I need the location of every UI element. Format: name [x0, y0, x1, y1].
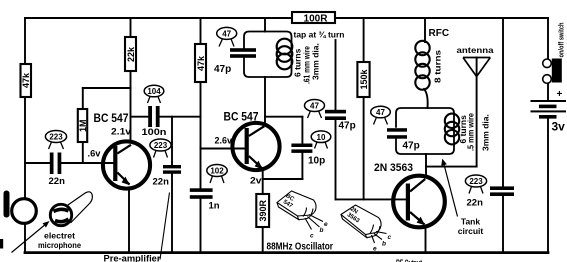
wire 22k column from rail — [130, 18, 132, 37]
svg-text:circuit: circuit — [458, 226, 484, 236]
svg-text:100R: 100R — [304, 14, 329, 25]
wire tank1 top leg from rail — [264, 18, 266, 32]
wire 22n cap to Q1 base — [62, 162, 113, 164]
wire 10p top leg — [301, 117, 303, 144]
wire Q2 emitter to 10p — [263, 178, 303, 180]
antenna — [463, 58, 490, 77]
wire 47p tap cap to Q3 base node — [335, 120, 337, 199]
svg-text:47p: 47p — [403, 141, 420, 152]
svg-text:electret: electret — [44, 232, 75, 241]
wire RFC top leg from rail — [424, 18, 426, 42]
wire Q2 collector node to 10p feedback — [265, 116, 302, 118]
wire 150k top leg from rail — [363, 18, 365, 62]
inductor L1 oscillator coil loop — [244, 32, 292, 78]
svg-text:tap at ¾ turn: tap at ¾ turn — [294, 30, 345, 40]
svg-text:Tank: Tank — [461, 217, 480, 227]
capacitor C1 22n plates — [50, 153, 54, 175]
wire Q1 emitter to ground — [128, 188, 130, 252]
svg-text:47p: 47p — [339, 121, 356, 132]
wire 22n output cap top leg from rail — [502, 18, 504, 186]
wire Q3 base — [336, 198, 406, 200]
leader arrow to electret microphone — [12, 221, 50, 253]
svg-text:.6v: .6v — [88, 149, 101, 159]
wire 47k2 bottom through junctions to 1n cap — [200, 82, 202, 188]
wire 150k bottom leg to base node — [363, 97, 365, 199]
wire 22k bottom to Q1 collector — [130, 71, 132, 142]
resistor R5 100R — [292, 12, 335, 23]
wire 1M feedback top — [83, 87, 131, 89]
microphone symbol — [4, 191, 37, 224]
inductor L1 turns — [277, 39, 293, 70]
svg-text:antenna: antenna — [457, 45, 494, 55]
svg-text:3mm dia.: 3mm dia. — [311, 43, 321, 80]
package drawing 2N3563 case — [341, 205, 387, 243]
transistor Q2 BC547 — [232, 123, 279, 170]
wire rail corner down to switch — [547, 18, 549, 59]
svg-text:BC 547: BC 547 — [224, 112, 259, 124]
svg-text:e: e — [324, 221, 328, 228]
svg-text:22n: 22n — [153, 177, 170, 188]
resistor R4 47k — [195, 44, 206, 82]
capacitor C7 10p plates — [291, 144, 312, 148]
wire 1M top leg — [82, 88, 84, 109]
wire 47k2 column from rail — [200, 18, 202, 44]
svg-text:10: 10 — [317, 133, 326, 142]
wire tank2 bottom to Q3 collector — [425, 154, 427, 177]
inductor L2 turns — [445, 114, 459, 145]
transistor Q3 2N3563 — [393, 176, 445, 228]
svg-text:47: 47 — [376, 108, 385, 117]
svg-text:e: e — [373, 246, 377, 253]
balloon marking 223 for C9 — [465, 175, 486, 194]
resistor R7 390R — [256, 194, 269, 227]
edge mark bottom left — [0, 239, 3, 249]
svg-text:47k: 47k — [21, 72, 31, 88]
svg-text:Pre-amplifier: Pre-amplifier — [104, 254, 162, 262]
balloon marking 223 for C1 — [45, 131, 66, 150]
balloon marking 10 for C7 — [311, 131, 331, 149]
svg-text:47: 47 — [222, 30, 231, 39]
svg-text:c: c — [310, 233, 314, 240]
ground bottom rail — [25, 251, 548, 254]
svg-text:c: c — [388, 234, 392, 241]
svg-text:3v: 3v — [552, 120, 566, 134]
wire left column from rail to R 47k — [24, 18, 26, 64]
wire 22n output cap bottom to ground — [502, 196, 504, 252]
svg-text:.5 mm wire: .5 mm wire — [466, 113, 476, 151]
wire battery to ground rail — [547, 119, 549, 253]
capacitor C2 100n plates — [148, 106, 152, 127]
svg-text:b: b — [320, 227, 324, 234]
balloon marking 47 for C8 — [371, 106, 391, 124]
package 2N3563 text — [345, 206, 364, 224]
on/off switch — [543, 59, 562, 84]
wire Q2 base — [201, 148, 245, 150]
svg-text:RF Output: RF Output — [396, 258, 422, 262]
svg-text:104: 104 — [147, 87, 161, 96]
wire RFC bottom to tank2 top — [424, 89, 428, 108]
svg-text:1M: 1M — [78, 119, 88, 132]
svg-text:100n: 100n — [142, 127, 167, 138]
capacitor C6 47p tap plates — [325, 110, 346, 114]
svg-text:2.6v: 2.6v — [215, 136, 233, 146]
svg-text:47: 47 — [310, 102, 319, 111]
svg-text:390R: 390R — [258, 199, 268, 221]
capacitor C8 47p tank2 plates — [387, 128, 407, 132]
svg-text:3mm dia.: 3mm dia. — [481, 114, 491, 151]
wire 1n cap to ground — [200, 199, 202, 252]
wire 100n cap to bias node — [160, 116, 201, 118]
transistor Q1 BC547 — [103, 141, 150, 188]
wire microphone to ground rail — [24, 224, 26, 253]
svg-text:2.1v: 2.1v — [111, 127, 131, 137]
svg-text:BC 547: BC 547 — [94, 113, 129, 125]
resistor R1 47k — [21, 64, 32, 97]
wire 22n bypass top leg — [171, 117, 173, 165]
wire tank1 bottom to Q2 collector — [264, 77, 266, 124]
inductor L2 tank coil loop — [396, 108, 454, 154]
svg-text:88MHz Oscillator: 88MHz Oscillator — [267, 242, 334, 253]
svg-text:RFC: RFC — [429, 28, 450, 39]
resistor R3 1M — [78, 109, 87, 142]
wire top supply rail right — [335, 17, 548, 19]
balloon marking 104 for C2 — [144, 85, 164, 103]
capacitor C5 47p tank1 plates — [230, 48, 256, 52]
svg-text:2v: 2v — [250, 176, 262, 186]
balloon marking 47 for C5 — [217, 27, 237, 46]
wire mic node to 22n coupling cap — [25, 162, 50, 164]
svg-text:223: 223 — [469, 177, 483, 186]
svg-text:b: b — [382, 241, 386, 248]
balloon marking 102 for C4 — [207, 165, 227, 184]
svg-text:223: 223 — [49, 133, 63, 142]
battery 3v — [531, 100, 567, 119]
wire 390R to ground — [262, 227, 264, 252]
wire 1M bottom leg to base — [82, 142, 84, 163]
svg-text:22k: 22k — [126, 46, 136, 62]
svg-text:+: + — [557, 89, 563, 100]
svg-text:10p: 10p — [308, 156, 325, 167]
svg-text:microphone: microphone — [38, 241, 82, 250]
svg-text:on/off switch: on/off switch — [559, 23, 566, 58]
capacitor C3 22n bypass plates — [163, 165, 181, 168]
leader line from Pre-amplifier to 22n — [160, 193, 170, 260]
svg-text:102: 102 — [210, 167, 224, 176]
wire 22n bypass bottom leg to ground — [171, 174, 173, 252]
svg-text:8 turns: 8 turns — [433, 50, 443, 83]
wire coil tap down to 47p — [335, 40, 337, 110]
wire antenna feed horizontal — [426, 166, 477, 168]
resistor R6 150k — [357, 62, 369, 97]
capacitor C9 22n output plates — [490, 186, 514, 190]
package drawing BC547 case — [277, 191, 323, 230]
electret microphone drawing — [50, 192, 92, 226]
wire Q3 emitter to ground — [425, 227, 427, 253]
svg-text:223: 223 — [154, 141, 168, 150]
wire Q2 emitter to 390R — [262, 170, 264, 194]
svg-text:150k: 150k — [359, 68, 369, 89]
wire 47k to microphone — [24, 97, 26, 199]
wire collector node to 100n cap — [131, 116, 148, 118]
svg-text:1n: 1n — [209, 201, 220, 212]
wire 10p bottom leg — [301, 153, 303, 179]
wire top supply rail left — [25, 17, 292, 19]
svg-text:47p: 47p — [214, 64, 231, 75]
svg-text:2N 3563: 2N 3563 — [374, 162, 413, 174]
svg-text:47k: 47k — [196, 55, 206, 71]
capacitor C4 1n plates — [190, 188, 213, 192]
package BC547 pin labels — [310, 221, 328, 240]
inductor RFC turns — [415, 41, 429, 90]
svg-text:22n: 22n — [467, 198, 484, 209]
balloon marking 47 for C6 — [305, 100, 325, 119]
package BC547 text — [281, 193, 298, 210]
wire switch to battery — [547, 84, 549, 100]
wire antenna feed vertical — [476, 58, 478, 167]
leader arrow Tank circuit — [441, 159, 457, 217]
resistor R2 22k — [125, 37, 136, 71]
package 2N3563 pin labels — [373, 234, 392, 253]
svg-text:22n: 22n — [49, 176, 66, 187]
balloon marking 223 for C3 — [150, 139, 171, 158]
